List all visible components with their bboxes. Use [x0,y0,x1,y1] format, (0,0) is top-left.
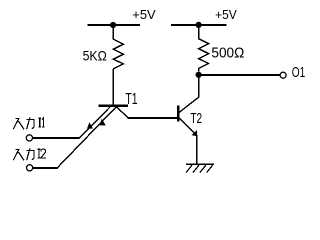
terminal O1 open circle [280,72,286,78]
ground hatch 2 [193,165,199,172]
label 入力I1 [13,118,34,130]
wire T1 collector to T2 base [127,117,177,119]
wire +5V rail right [171,24,226,26]
resistor R2 500Ω [199,25,209,71]
T2 emitter lead [179,118,196,135]
transistor T2 base bar [177,106,179,122]
ground hatch 1 [186,165,192,172]
svg-text:T2: T2 [190,110,202,127]
node output junction dot [196,72,202,78]
svg-text:500Ω: 500Ω [211,45,244,61]
wire input 1 [33,137,80,139]
arrowhead emitter 2 [100,119,106,126]
terminal input I1 open circle [26,135,32,141]
svg-text:T1: T1 [125,91,137,108]
node junction dot on left rail [110,22,116,28]
wire emitter to ground [196,135,198,165]
svg-text:O1: O1 [292,64,306,81]
ground hatch 4 [207,165,213,172]
svg-text:5KΩ: 5KΩ [83,48,107,64]
T1 emitter 1 lead [79,107,110,138]
node junction dot on right rail [196,22,202,28]
wire input 2 [33,167,58,169]
wire T2 collector to output node [198,75,200,98]
T2 collector lead [179,97,198,112]
resistor R1 5KΩ [113,25,123,69]
ground hatch 3 [200,165,206,172]
svg-text:+5V: +5V [132,7,156,22]
label 入力I2 [13,149,34,161]
terminal input I2 open circle [27,165,33,171]
wire R1 bottom to T1 base [112,69,114,106]
T1 emitter 2 lead [57,107,116,168]
T1 collector lead [117,107,129,118]
svg-text:+5V: +5V [215,7,237,22]
ground bar [186,163,214,165]
arrowhead T2 emitter [192,130,198,136]
wire output node to terminal O1 [199,74,280,76]
transistor T1 base bar [99,105,129,107]
wire +5V rail left [88,24,141,26]
arrowhead emitter 1 [87,122,93,128]
